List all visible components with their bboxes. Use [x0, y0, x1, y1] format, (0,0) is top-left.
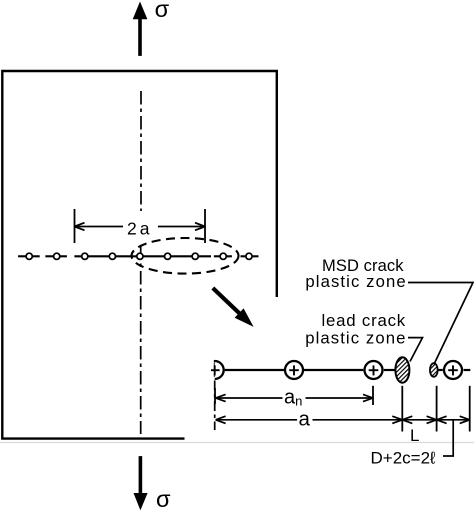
D+2c dimension [437, 386, 470, 432]
2a dimension [75, 209, 206, 243]
a_n dimension [215, 386, 373, 405]
detail hole 2 [285, 361, 303, 379]
applied stress arrow top [133, 2, 148, 56]
svg-text:L: L [410, 426, 419, 445]
crack line through holes [18, 255, 258, 257]
plate outline [2, 71, 277, 439]
detail hole 3 [365, 361, 383, 379]
detail centerline [214, 360, 216, 430]
MSD leader line [408, 283, 473, 365]
MSD crack plastic zone ellipse [430, 363, 438, 377]
svg-text:σ: σ [156, 486, 171, 512]
svg-text:plastic zone: plastic zone [305, 272, 406, 291]
scan artifact faint line [0, 442, 474, 444]
plate vertical centerline [140, 91, 142, 211]
detail arrow [213, 288, 254, 327]
D+2c leader line [443, 421, 453, 457]
lead crack plastic zone ellipse [395, 357, 409, 382]
svg-text:plastic zone: plastic zone [305, 329, 406, 348]
detail region dashed ellipse [132, 238, 239, 274]
svg-text:σ: σ [155, 0, 170, 22]
detail crack line [225, 369, 471, 371]
svg-text:lead crack: lead crack [322, 311, 406, 330]
applied stress arrow bottom [134, 456, 148, 510]
svg-text:2a: 2a [127, 218, 152, 238]
lead crack leader line [408, 338, 423, 362]
detail hole 4 [444, 361, 462, 379]
svg-text:D+2c=2ℓ: D+2c=2ℓ [371, 449, 437, 468]
L dimension [402, 386, 436, 432]
hole half circle on centerline [215, 361, 224, 379]
a dimension [216, 386, 403, 432]
rivet holes row [26, 253, 252, 259]
svg-text:a: a [299, 407, 311, 430]
